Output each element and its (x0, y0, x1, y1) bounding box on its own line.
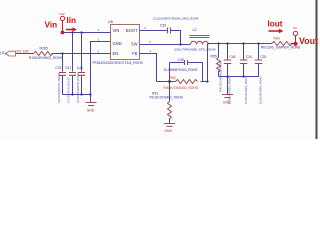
border right edge (316, 0, 318, 139)
terminal 24V (60, 16, 64, 31)
op-amp U5 box (111, 25, 140, 60)
svg-text:C39: C39 (160, 24, 166, 28)
wire C75 column (62, 54, 64, 95)
wire C47 column (72, 33, 74, 95)
svg-text:R0/1206_JUMPER_ROHS: R0/1206_JUMPER_ROHS (261, 45, 301, 49)
node Vin dot (61, 31, 65, 35)
terminal 5V out (293, 31, 297, 42)
svg-text:5: 5 (98, 49, 100, 53)
svg-text:C470UF/6R3V_ROHS: C470UF/6R3V_ROHS (244, 76, 248, 104)
wire output rail (209, 43, 296, 45)
arrow Iout (269, 29, 284, 33)
svg-text:2: 2 (149, 40, 151, 44)
wire Vin rail (63, 32, 111, 34)
resistor R60 (272, 42, 293, 46)
capacitor C33 (255, 60, 262, 64)
port tag 5V_EN (6, 51, 16, 56)
svg-text:C470UF/6R3V_ROHS: C470UF/6R3V_ROHS (228, 76, 232, 104)
wire FB row (140, 54, 208, 82)
capacitor C39 (168, 28, 171, 34)
capacitor C75 (59, 73, 66, 76)
wire ground rail left (63, 95, 91, 103)
svg-text:C40: C40 (178, 58, 184, 62)
svg-text:C75: C75 (55, 66, 61, 70)
resistor R52 (176, 80, 198, 84)
svg-text:Vout: Vout (299, 36, 318, 46)
wire R51 column (169, 82, 171, 124)
svg-text:L2: L2 (193, 28, 197, 32)
svg-text:SW: SW (131, 41, 138, 46)
svg-text:[11]: [11] (1, 51, 6, 55)
svg-text:GND: GND (87, 109, 95, 113)
svg-text:R10K/5%/0402_ROHS: R10K/5%/0402_ROHS (29, 56, 63, 60)
svg-text:C33: C33 (260, 55, 266, 59)
svg-text:24V: 24V (59, 12, 64, 16)
svg-text:COIL/TAPC4038_STD_ROHS: COIL/TAPC4038_STD_ROHS (174, 47, 216, 51)
svg-text:C34: C34 (246, 55, 252, 59)
svg-text:C100UF/6R3V_ROHS: C100UF/6R3V_ROHS (259, 76, 263, 104)
wire C48 column (227, 44, 229, 77)
wire ground rail right (219, 77, 259, 95)
svg-text:3: 3 (98, 28, 100, 32)
wire C46 column (81, 33, 83, 95)
svg-text:C10UF/16V/X7R_ROHS: C10UF/16V/X7R_ROHS (76, 72, 80, 103)
wire C40 branch (170, 63, 203, 82)
svg-text:R265: R265 (40, 47, 48, 51)
wire R55 column (218, 44, 220, 77)
svg-text:FB: FB (132, 51, 138, 56)
junction dots (61, 31, 259, 95)
svg-text:5V: 5V (293, 26, 297, 30)
capacitor C46 (78, 73, 85, 76)
wire FB sense drop (207, 44, 209, 82)
svg-text:R40.2K/1%/0402_ROHS: R40.2K/1%/0402_ROHS (219, 61, 223, 92)
wire SW (140, 44, 191, 46)
svg-text:Iin: Iin (67, 16, 77, 25)
inductor L2 (190, 36, 210, 45)
resistor R55 (217, 58, 221, 73)
svg-text:5V_EN: 5V_EN (17, 50, 29, 54)
svg-text:TPS54202DDCR/SOT23-6_ROHS: TPS54202DDCR/SOT23-6_ROHS (92, 61, 144, 65)
svg-text:U5: U5 (108, 20, 113, 24)
svg-text:10-06B/5P/0402_ROHS: 10-06B/5P/0402_ROHS (164, 68, 198, 72)
svg-text:4: 4 (150, 49, 152, 53)
capacitor C48 (224, 60, 232, 64)
svg-text:C10/100NF/X7R_ROHS: C10/100NF/X7R_ROHS (57, 73, 61, 103)
svg-text:6: 6 (145, 26, 147, 30)
wire C33 column (258, 44, 260, 77)
capacitor C34 (240, 60, 248, 64)
capacitor C47 (69, 73, 76, 76)
svg-text:C46: C46 (77, 66, 83, 70)
wire C34 column (243, 44, 245, 77)
svg-text:BOOT: BOOT (126, 28, 138, 33)
svg-text:GND: GND (165, 129, 173, 133)
capacitor C40 (185, 60, 188, 65)
svg-text:C11/100NF/X7R/10%_0402_ROHS: C11/100NF/X7R/10%_0402_ROHS (153, 17, 199, 21)
svg-text:R60: R60 (274, 37, 280, 41)
ground right (222, 95, 233, 98)
svg-text:R9.1K/1%/0402_ROHS: R9.1K/1%/0402_ROHS (150, 96, 183, 100)
svg-text:Vin: Vin (45, 21, 58, 30)
svg-text:R52: R52 (170, 76, 176, 80)
svg-text:R/68K/1%/0402_ROHS: R/68K/1%/0402_ROHS (164, 86, 199, 90)
svg-text:Iout: Iout (268, 20, 283, 29)
svg-text:C48: C48 (230, 55, 236, 59)
svg-text:EN: EN (113, 51, 119, 56)
node Vout dot (293, 42, 297, 46)
arrow Iin (66, 27, 77, 31)
ground left (86, 103, 97, 106)
svg-text:VIN: VIN (113, 28, 120, 33)
wire EN row (16, 53, 111, 55)
svg-text:C47: C47 (65, 66, 71, 70)
svg-text:GND: GND (113, 41, 122, 46)
svg-text:R55: R55 (211, 54, 217, 58)
svg-text:1: 1 (98, 37, 100, 41)
resistor R51 (168, 102, 172, 120)
ground mid (164, 124, 175, 127)
svg-text:C4.7UF/X7R_ROHS: C4.7UF/X7R_ROHS (67, 77, 71, 103)
wire BOOT (140, 31, 181, 45)
resistor R265 (34, 52, 54, 56)
wire GND pin (91, 42, 111, 95)
